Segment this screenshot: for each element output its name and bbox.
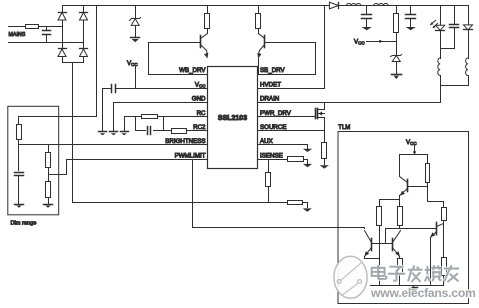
- svg-text:HVDET: HVDET: [260, 81, 281, 88]
- svg-text:www.elecfans.com: www.elecfans.com: [370, 286, 476, 300]
- svg-text:SB_DRV: SB_DRV: [260, 67, 286, 74]
- svg-text:SSL2103: SSL2103: [218, 115, 247, 122]
- svg-text:SOURCE: SOURCE: [260, 124, 286, 131]
- svg-text:GND: GND: [192, 96, 206, 103]
- svg-text:TLM: TLM: [338, 125, 350, 131]
- svg-text:RC: RC: [197, 110, 206, 117]
- svg-text:DRAIN: DRAIN: [260, 96, 279, 103]
- svg-text:Dim range: Dim range: [11, 221, 37, 227]
- svg-text:WB_DRV: WB_DRV: [179, 67, 206, 74]
- svg-text:ISENSE: ISENSE: [260, 152, 283, 159]
- svg-text:PWR_DRV: PWR_DRV: [260, 110, 292, 117]
- svg-text:RC2: RC2: [193, 124, 206, 131]
- svg-text:MAINS: MAINS: [9, 32, 26, 38]
- svg-text:PWMLIMIT: PWMLIMIT: [175, 152, 206, 159]
